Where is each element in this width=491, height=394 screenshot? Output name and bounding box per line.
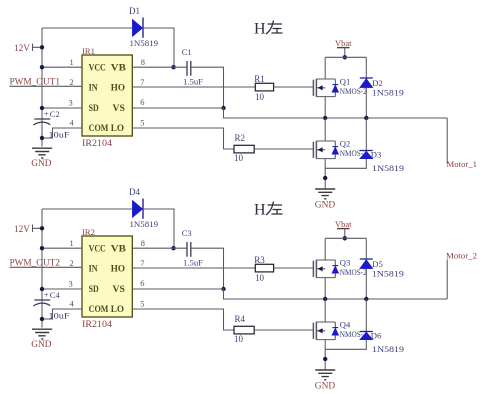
svg-text:1.5uF: 1.5uF	[183, 77, 203, 86]
junction: VS node	[221, 106, 225, 110]
svg-text:Motor_1: Motor_1	[447, 159, 478, 169]
svg-text:D1: D1	[129, 6, 140, 16]
svg-text:IR2104: IR2104	[82, 138, 113, 148]
junction: source/ground net	[323, 176, 327, 180]
svg-text:D2: D2	[372, 78, 383, 88]
junction: VCC tap	[40, 246, 44, 250]
resistor R2 10	[234, 133, 254, 163]
svg-text:LO: LO	[111, 305, 124, 315]
svg-text:VB: VB	[111, 244, 126, 254]
wire: pin 7 HO to gate resistor	[132, 86, 255, 88]
svg-text:Q4: Q4	[340, 320, 351, 330]
junction: phase node at D5 anode	[364, 297, 368, 301]
svg-text:Q2: Q2	[340, 139, 351, 149]
wire: diode cathode to VB junction	[143, 209, 174, 248]
svg-text:COM: COM	[89, 305, 109, 315]
svg-text:8: 8	[141, 239, 145, 248]
diode D2 1N5819 (freewheel high)	[360, 57, 404, 118]
svg-text:D6: D6	[371, 330, 382, 340]
junction: phase node at D2 anode	[364, 116, 368, 120]
wire: pin 1 VCC	[42, 247, 82, 249]
transistor Q3 NMOS-2 (high side)	[313, 258, 366, 278]
junction: SD tap	[40, 287, 44, 291]
junction: VS node	[221, 287, 225, 291]
diode D3 1N5819 (freewheel low)	[325, 118, 404, 173]
wire: diode cathode to VB junction	[143, 28, 174, 67]
svg-text:10: 10	[255, 273, 265, 283]
svg-text:IN: IN	[89, 84, 98, 94]
svg-text:D4: D4	[129, 187, 140, 197]
wire: pin 4 COM return	[42, 128, 82, 138]
power port Vbat	[335, 219, 352, 238]
IC IR2 IR2104	[82, 227, 132, 329]
wire: gate resistor to Q4 gate	[254, 329, 313, 331]
svg-text:+: +	[44, 109, 49, 119]
svg-text:R4: R4	[235, 314, 246, 324]
resistor R4 10	[234, 314, 254, 344]
svg-text:1N5819: 1N5819	[130, 39, 159, 48]
power port 12V	[14, 225, 42, 236]
wire: 12V rail vertical	[41, 209, 43, 328]
svg-text:PWM_OUT2: PWM_OUT2	[10, 258, 61, 268]
resistor R1 10	[254, 74, 273, 102]
svg-text:1.5uF: 1.5uF	[183, 258, 203, 267]
junction: VCC tap	[40, 65, 44, 69]
diode D4 1N5819	[129, 187, 158, 229]
wire: bootstrap cap to VS	[191, 67, 224, 108]
svg-text:R3: R3	[254, 255, 265, 265]
svg-text:LO: LO	[111, 124, 124, 134]
svg-text:GND: GND	[315, 200, 336, 210]
wire: Q1 source to phase rail	[324, 97, 326, 118]
svg-text:VCC: VCC	[89, 244, 106, 254]
junction: 12V port tap	[40, 226, 44, 230]
title H-left	[254, 202, 283, 219]
wire: pin 2 IN from PWM_OUT1	[10, 85, 83, 87]
wire: pin 7 HO to gate resistor	[132, 267, 255, 269]
wire: pin 3 SD	[42, 288, 82, 290]
transistor Q4 NMOS-2 (low side)	[313, 320, 366, 340]
svg-text:Motor_2: Motor_2	[446, 251, 477, 261]
wire: Q1 drain to Vbat rail	[324, 57, 326, 79]
wire: Vbat rail	[325, 56, 366, 58]
wire: pin 8 VB	[132, 66, 187, 68]
svg-text:2: 2	[70, 78, 74, 87]
junction: phase node at Q3 source	[323, 297, 327, 301]
svg-text:C3: C3	[182, 228, 192, 238]
wire: pin 4 COM return	[42, 309, 82, 319]
wire: VS to phase rail	[224, 108, 448, 118]
svg-text:IR1: IR1	[82, 46, 95, 56]
svg-text:COM: COM	[89, 124, 109, 134]
svg-text:Vbat: Vbat	[335, 38, 352, 48]
junction: COM/GND tap	[40, 136, 44, 140]
wire: bootstrap cap to VS	[191, 248, 224, 289]
svg-text:SD: SD	[89, 104, 99, 114]
svg-text:D3: D3	[371, 149, 382, 159]
capacitor C1 1.5uF	[182, 47, 204, 86]
svg-text:GND: GND	[31, 159, 52, 169]
wire: pin 6 VS	[132, 107, 223, 109]
svg-text:Q1: Q1	[340, 77, 351, 87]
svg-text:3: 3	[69, 280, 73, 289]
svg-text:C2: C2	[50, 109, 60, 119]
junction: SD tap	[40, 106, 44, 110]
svg-text:1: 1	[70, 58, 74, 67]
wire: gate resistor to Q2 gate	[254, 148, 313, 150]
svg-text:7: 7	[140, 259, 144, 268]
junction: VB node	[171, 246, 175, 250]
wire: pin 6 VS	[132, 288, 223, 290]
svg-text:C4: C4	[50, 290, 61, 300]
svg-text:SD: SD	[89, 285, 99, 295]
capacitor C4 10uF	[33, 290, 70, 321]
wire: Q3 source to phase rail	[324, 278, 326, 299]
wire: VS to phase rail	[224, 289, 448, 299]
svg-text:5: 5	[140, 300, 144, 309]
svg-text:VS: VS	[113, 104, 125, 114]
wire: pin 1 VCC	[42, 66, 82, 68]
wire: phase rail to Motor_2	[446, 260, 448, 300]
svg-text:H: H	[254, 21, 266, 38]
junction: COM/GND tap	[40, 317, 44, 321]
svg-text:HO: HO	[111, 265, 125, 275]
junction: Vbat rail	[343, 236, 347, 240]
svg-text:IN: IN	[89, 265, 98, 275]
resistor R3 10	[254, 255, 273, 283]
wire: top rail to diode D1	[42, 27, 132, 29]
capacitor C2 10uF	[33, 109, 70, 140]
diode D6 1N5819 (freewheel low)	[325, 299, 404, 354]
ground (half-bridge)	[315, 370, 336, 391]
svg-text:VB: VB	[111, 63, 126, 73]
wire: pin 5 LO to gate resistor	[132, 128, 234, 149]
svg-text:VCC: VCC	[89, 63, 106, 73]
transistor Q1 NMOS-2 (high side)	[313, 77, 366, 97]
wire: gate resistor to Q3 gate	[274, 267, 314, 269]
svg-text:1: 1	[70, 239, 74, 248]
svg-text:PWM_OUT1: PWM_OUT1	[10, 77, 61, 87]
svg-text:GND: GND	[315, 381, 336, 391]
wire: 12V rail vertical	[41, 28, 43, 147]
svg-text:VS: VS	[113, 285, 125, 295]
transistor Q2 NMOS-2 (low side)	[313, 139, 366, 159]
wire: pin 5 LO to gate resistor	[132, 309, 234, 330]
svg-text:+: +	[44, 290, 49, 300]
svg-text:Vbat: Vbat	[335, 219, 352, 229]
svg-text:6: 6	[140, 279, 144, 288]
svg-text:GND: GND	[31, 340, 52, 350]
svg-text:1N5819: 1N5819	[372, 164, 404, 173]
svg-text:IR2104: IR2104	[82, 319, 113, 329]
power port Vbat	[335, 38, 352, 57]
svg-text:IR2: IR2	[82, 227, 95, 237]
svg-text:HO: HO	[111, 84, 125, 94]
svg-text:5: 5	[140, 119, 144, 128]
diode D1 1N5819	[129, 6, 158, 48]
wire: Q3 drain to Vbat rail	[324, 238, 326, 260]
wire: Q4 drain to phase rail	[324, 299, 326, 322]
capacitor C3 1.5uF	[182, 228, 204, 267]
ground (input side)	[31, 329, 52, 350]
svg-text:10: 10	[234, 153, 244, 163]
ground (half-bridge)	[315, 189, 336, 210]
power port 12V	[14, 44, 42, 55]
svg-text:8: 8	[141, 58, 145, 67]
svg-text:7: 7	[140, 78, 144, 87]
svg-text:10: 10	[255, 92, 265, 102]
wire: top rail to diode D4	[42, 208, 132, 210]
wire: phase rail to Motor_1	[446, 118, 448, 164]
wire: Q4 source to ground	[324, 340, 326, 370]
svg-text:1N5819: 1N5819	[372, 269, 404, 278]
svg-text:C1: C1	[182, 47, 192, 57]
svg-text:1N5819: 1N5819	[130, 220, 159, 229]
IC IR1 IR2104	[82, 46, 132, 148]
svg-text:10: 10	[234, 334, 244, 344]
svg-text:R2: R2	[235, 133, 246, 143]
wire: Q2 source to ground	[324, 159, 326, 189]
wire: gate resistor to Q1 gate	[274, 86, 314, 88]
svg-text:D5: D5	[372, 259, 383, 269]
junction: source/ground net	[323, 357, 327, 361]
svg-text:12V: 12V	[14, 44, 30, 54]
svg-text:12V: 12V	[14, 225, 30, 235]
svg-text:6: 6	[140, 98, 144, 107]
junction: 12V port tap	[40, 45, 44, 49]
svg-text:3: 3	[69, 99, 73, 108]
wire: pin 3 SD	[42, 107, 82, 109]
ground (input side)	[31, 148, 52, 169]
wire: Q2 drain to phase rail	[324, 118, 326, 141]
svg-text:1N5819: 1N5819	[372, 88, 404, 97]
svg-text:1N5819: 1N5819	[372, 345, 404, 354]
junction: phase node at Q1 source	[323, 116, 327, 120]
svg-text:R1: R1	[254, 74, 265, 84]
svg-text:H: H	[254, 202, 266, 219]
junction: Vbat rail	[343, 55, 347, 59]
svg-text:2: 2	[70, 259, 74, 268]
junction: VB node	[171, 65, 175, 69]
svg-text:Q3: Q3	[340, 258, 351, 268]
wire: pin 2 IN from PWM_OUT2	[10, 266, 83, 268]
wire: pin 8 VB	[132, 247, 187, 249]
svg-text:NMOS-2: NMOS-2	[340, 268, 367, 277]
svg-text:NMOS-2: NMOS-2	[340, 87, 367, 96]
title H-left	[254, 21, 283, 38]
diode D5 1N5819 (freewheel high)	[360, 238, 404, 299]
wire: Vbat rail	[325, 237, 366, 239]
